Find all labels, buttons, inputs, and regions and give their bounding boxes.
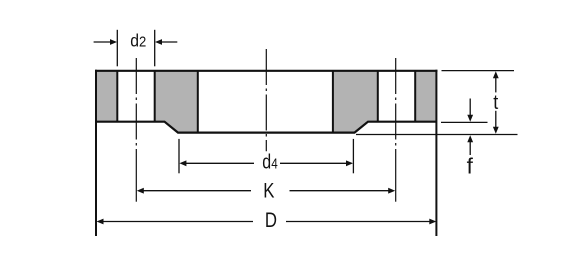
svg-text:t: t: [493, 92, 499, 114]
d4 dimension line left with arrow: [181, 162, 254, 164]
t dimension lower arrow: [495, 111, 497, 131]
svg-text:d2: d2: [130, 31, 146, 51]
svg-text:K: K: [263, 180, 274, 203]
svg-text:f: f: [467, 154, 474, 179]
gray section: hub right with chamfer: [333, 71, 378, 133]
bore left edge: [197, 71, 199, 133]
flange bottom outline with raised face and chamfers: [96, 122, 436, 133]
centerline flange axis: [265, 49, 267, 151]
d2 extension line left: [116, 30, 118, 67]
centerline bolt hole right: [395, 58, 397, 150]
d4 extension line left: [178, 139, 180, 173]
bolt hole right, left edge: [377, 71, 379, 122]
f dimension lower arrow: [469, 138, 471, 155]
bolt hole left, right edge: [154, 71, 156, 122]
d2 extension line right: [154, 30, 156, 67]
d2 dimension arrow left: [94, 41, 111, 43]
flange left edge + D extension line: [95, 70, 97, 236]
bore right edge: [332, 71, 334, 133]
gray section: outer ring right: [415, 71, 436, 122]
D dimension line right with arrow: [286, 221, 434, 223]
svg-text:d4: d4: [262, 150, 278, 173]
f dimension upper arrow: [469, 99, 471, 120]
flange bottom extension line (f/t): [441, 121, 488, 123]
flange top edge: [95, 70, 438, 72]
gray section: hub left with chamfer: [155, 71, 198, 133]
gray section: outer ring left: [97, 71, 117, 122]
t dimension upper arrow: [495, 74, 497, 92]
K dimension line right with arrow: [290, 190, 393, 192]
bolt hole left, left edge: [116, 71, 118, 122]
top extension line (t): [442, 70, 515, 72]
D dimension line left with arrow: [99, 221, 253, 223]
d2 dimension arrow right: [161, 41, 177, 43]
flange right edge + D extension line: [435, 70, 437, 236]
K dimension line left with arrow: [140, 190, 252, 192]
svg-text:D: D: [265, 209, 277, 232]
d4 dimension line right with arrow: [280, 162, 352, 164]
d4 extension line right: [352, 139, 354, 173]
raised face extension line: [356, 134, 518, 136]
centerline bolt hole left: [135, 58, 137, 150]
bolt hole right, right edge: [414, 71, 416, 122]
